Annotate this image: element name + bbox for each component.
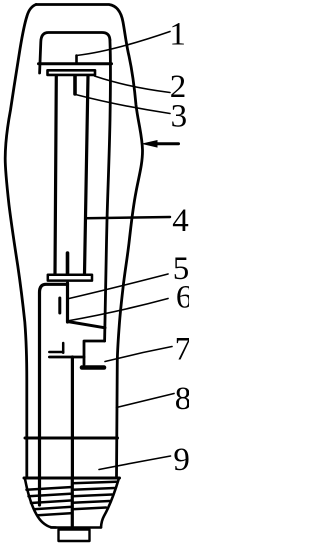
arrow shaft (155, 142, 179, 145)
leader line 7 (105, 347, 172, 362)
base right taper (101, 479, 119, 528)
getter bar (label 7) (82, 365, 104, 370)
base left taper (25, 479, 56, 528)
support bar to left lead (49, 356, 84, 359)
small bracket horizontal (49, 351, 63, 354)
svg-text:9: 9 (173, 442, 189, 478)
support strap to frame wire (label 6) (68, 322, 106, 328)
small bracket vertical (62, 343, 65, 353)
leader 1 stub (75, 56, 78, 63)
svg-text:6: 6 (176, 280, 189, 316)
right lead wire down to stem (71, 357, 74, 477)
svg-text:4: 4 (172, 203, 189, 239)
screw thread hatch right half (72, 482, 116, 510)
leader line 2 (95, 76, 171, 93)
upper electrode (label 3) (73, 76, 77, 94)
leader line 9 (stem / base) (99, 456, 171, 470)
svg-text:8: 8 (175, 381, 189, 417)
outer bulb envelope right profile (36, 5, 143, 478)
svg-text:7: 7 (175, 332, 189, 368)
arc tube right wall (label 4) (85, 76, 89, 274)
leader line 4 (86, 217, 171, 218)
left lead inside base (38, 478, 41, 505)
leader line 8 (outer bulb wall) (117, 394, 175, 408)
arc tube bottom end cap (48, 275, 92, 281)
svg-text:3: 3 (171, 98, 188, 134)
screw thread hatch left half (27, 487, 73, 515)
arc tube left wall (55, 76, 56, 274)
lower electrode rod (label 5) (66, 253, 70, 275)
leader line 6 (67, 299, 168, 322)
lower electrode rod below cap (66, 283, 69, 322)
frame right support wire (105, 40, 111, 341)
leader line 1 (77, 32, 171, 56)
leader line 3 (76, 95, 171, 114)
support plate (label 1) (39, 62, 112, 65)
leader line 5 (69, 274, 168, 299)
arrow head (141, 140, 158, 148)
svg-text:1: 1 (169, 16, 186, 52)
base contact button (59, 530, 90, 542)
arc tube top end cap (label 2) (48, 70, 96, 75)
stem press line (25, 437, 118, 440)
amalgam reservoir stub (58, 298, 61, 313)
base top line (24, 477, 120, 480)
frame wire lower bend step (84, 341, 105, 365)
outer bulb envelope left profile (5, 5, 36, 478)
inner support frame arch (40, 33, 110, 74)
base bottom line (51, 526, 101, 529)
lead wire from cap to left lead (40, 284, 68, 477)
right lead inside base (71, 478, 74, 526)
